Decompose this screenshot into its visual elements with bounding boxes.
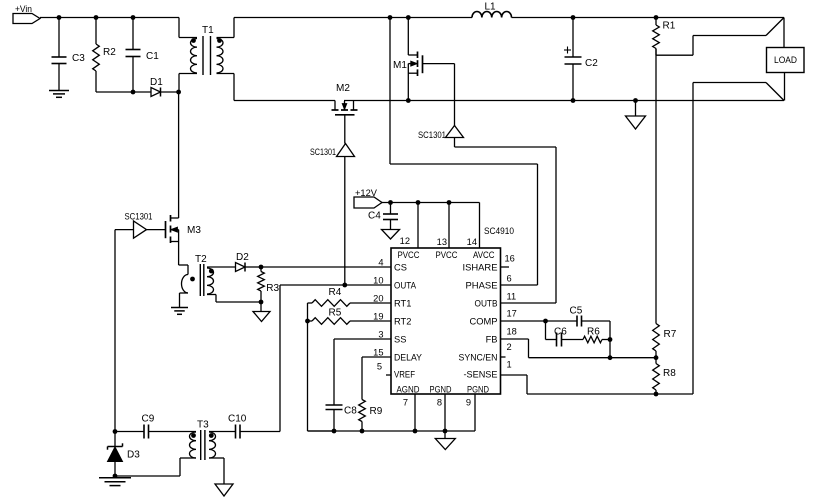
resistor R2: [93, 18, 117, 93]
wire pin 12 stub: [417, 203, 419, 249]
transformer T1 label: [202, 25, 214, 36]
svg-text:LOAD: LOAD: [774, 55, 797, 66]
svg-text:T1: T1: [202, 25, 214, 36]
svg-text:DELAY: DELAY: [394, 353, 422, 363]
T1 secondary phase dot: [217, 38, 222, 43]
wire switch-node rail (T1 to L1): [234, 17, 472, 19]
pin 3 label: [378, 330, 383, 340]
transistor M3: [166, 215, 202, 265]
wire PHASE sense (switch node to pin 6): [390, 18, 538, 286]
svg-text:4: 4: [378, 258, 383, 268]
wire T1 primary bottom lead: [179, 74, 197, 93]
wire M3 driver output to gate: [147, 229, 166, 231]
junction M1 drain: [406, 15, 411, 20]
svg-text:C6: C6: [554, 327, 567, 338]
svg-text:+12V: +12V: [355, 188, 378, 198]
pin 11 label: [507, 292, 517, 302]
junction D2 cathode / CS: [259, 265, 264, 270]
svg-text:PVCC: PVCC: [436, 250, 458, 260]
transformer T1 secondary winding: [217, 39, 224, 73]
wire pin 9 stub: [474, 394, 476, 431]
svg-text:6: 6: [507, 274, 512, 284]
wire output return rail: [344, 100, 784, 102]
op-amp U1 controller IC SC4910 body: [391, 248, 501, 395]
wire R3 bottom to ground: [260, 302, 262, 312]
wire pin 8 stub: [444, 394, 446, 431]
pin 9 label: [466, 398, 471, 408]
transistor M2 (sync FET, horizontal): [332, 83, 358, 115]
svg-text:C9: C9: [142, 414, 155, 425]
svg-text:D1: D1: [150, 77, 163, 88]
junction COMP node: [543, 319, 548, 324]
svg-text:T2: T2: [195, 254, 207, 265]
pin 7 label: [403, 398, 408, 408]
resistor R9: [359, 400, 383, 432]
wire -SENSE riser to bottom flag: [692, 83, 694, 395]
resistor R7: [653, 324, 677, 358]
wire +12V rail: [382, 202, 480, 204]
svg-text:PGND: PGND: [467, 385, 489, 395]
pin 5 label: [377, 362, 382, 372]
junction R7/R8 feedback node: [654, 355, 659, 360]
svg-text:2: 2: [507, 342, 512, 352]
T2 secondary phase dot: [209, 269, 214, 274]
pin 19 label: [373, 312, 383, 322]
wire M2 gate to driver: [344, 115, 346, 144]
ground (earth) below T2: [171, 308, 188, 315]
wire R2 bottom to D1 anode: [96, 91, 151, 93]
svg-text:C3: C3: [72, 53, 85, 64]
wire CS line (D2/R3 node to pin 4): [261, 266, 391, 268]
capacitor C2: [564, 18, 598, 101]
transformer T3 core: [201, 430, 205, 460]
wire ISHARE stub (pin 16): [501, 266, 510, 268]
svg-text:SC1301: SC1301: [310, 147, 336, 157]
svg-text:AGND: AGND: [397, 385, 420, 395]
resistor R8: [653, 358, 677, 394]
resistor R1: [653, 18, 676, 56]
wire M1 driver input from OUTB: [455, 138, 557, 148]
junction C8 bottom: [332, 429, 337, 434]
op-amp U3 gate driver SC1301 (M1): [418, 126, 464, 141]
wire -SENSE (pin 1) routing: [501, 375, 694, 394]
junction R1 top: [654, 15, 659, 20]
ground (earth) below D3: [99, 476, 131, 486]
wire SS (pin 3): [334, 338, 391, 340]
wire D3 node to C9: [115, 431, 144, 433]
T3 secondary phase dot: [209, 433, 214, 438]
wire T2 secondary bottom to R3: [207, 295, 261, 303]
svg-text:OUTB: OUTB: [475, 299, 498, 309]
T1 primary phase dot: [191, 38, 196, 43]
pin 14 label: [467, 237, 477, 247]
wire T1 primary top lead: [179, 18, 197, 38]
transformer T3 label: [197, 420, 209, 431]
svg-text:AVCC: AVCC: [473, 250, 495, 260]
transformer T2 label: [195, 254, 207, 265]
junction R3 bottom: [259, 300, 264, 305]
wire pin 14 stub: [479, 203, 481, 249]
capacitor C1: [126, 18, 160, 93]
wire T1 secondary bottom rail to M2: [234, 100, 335, 102]
junction C3 top: [57, 15, 62, 20]
junction pin 7 ground: [413, 429, 418, 434]
svg-text:R3: R3: [266, 283, 279, 294]
capacitor C3: [52, 18, 86, 91]
svg-text:T3: T3: [197, 420, 209, 431]
diode D2: [236, 252, 262, 272]
ground below PGND rail: [435, 431, 455, 450]
junction R8 bottom / -SENSE: [654, 392, 659, 397]
svg-text:PGND: PGND: [430, 385, 452, 395]
resistor R6: [583, 327, 602, 343]
pin 18 label: [507, 327, 517, 337]
inductor L1: [472, 2, 512, 18]
svg-text:R2: R2: [103, 47, 116, 58]
svg-text:M1: M1: [393, 60, 407, 71]
pin 6 label: [507, 274, 512, 284]
wire M1 gate loop: [423, 64, 455, 126]
svg-text:ISHARE: ISHARE: [463, 263, 498, 273]
pin 17 label: [507, 309, 517, 319]
wire COMP to C6: [546, 321, 557, 340]
ground below T3 secondary: [215, 484, 233, 496]
wire M3 source to T2 primary: [179, 265, 188, 275]
svg-text:+Vin: +Vin: [15, 4, 32, 14]
svg-text:FB: FB: [486, 335, 498, 345]
wire T3 primary bottom return: [115, 458, 196, 476]
IC part number label SC4910: [484, 226, 514, 236]
wire T1 secondary bottom lead: [217, 74, 235, 101]
svg-text:7: 7: [403, 398, 408, 408]
pin 10 label: [373, 276, 383, 286]
svg-text:D2: D2: [236, 252, 249, 263]
junction output ground: [633, 98, 638, 103]
junction R2 top: [94, 15, 99, 20]
transformer T2 core: [200, 264, 204, 296]
junction C2 top: [571, 15, 576, 20]
capacitor C8: [326, 339, 358, 431]
junction R4/R5 common: [305, 319, 310, 324]
pin 4 label: [378, 258, 383, 268]
svg-text:C5: C5: [570, 306, 583, 317]
wire R1/R7 sense divider riser: [655, 49, 657, 324]
junction D3 anode / T3 return: [113, 474, 118, 479]
wire R4/R5 common to AGND rail: [308, 303, 335, 431]
wire VREF stub (pin 5): [386, 374, 391, 376]
junction pin 12 supply: [416, 200, 421, 205]
transformer T3 primary winding: [189, 432, 196, 458]
wire R6 to C5 right end: [602, 321, 610, 340]
svg-text:CS: CS: [394, 263, 407, 273]
wire M3 driver input riser: [115, 230, 134, 432]
svg-text:20: 20: [373, 294, 383, 304]
transformer T1 core: [203, 36, 211, 75]
wire rail drop to LOAD: [783, 18, 785, 48]
pin 2 label: [507, 342, 512, 352]
svg-text:SYNC/EN: SYNC/EN: [459, 353, 498, 363]
wire C9 to T3 primary: [149, 431, 197, 433]
resistor R5: [308, 308, 392, 325]
svg-text:14: 14: [467, 237, 477, 247]
svg-text:SC1301: SC1301: [418, 130, 446, 140]
transformer T2 secondary winding: [207, 268, 214, 294]
wire T3 secondary top to C10: [209, 431, 236, 433]
svg-text:M3: M3: [187, 225, 201, 236]
svg-text:19: 19: [373, 312, 383, 322]
pin 12 label: [400, 236, 410, 246]
svg-text:SS: SS: [394, 335, 406, 345]
svg-text:8: 8: [437, 398, 442, 408]
junction C4 top: [388, 200, 393, 205]
junction M1 source: [406, 98, 411, 103]
T2 primary phase dot: [190, 277, 195, 282]
svg-text:SC1301: SC1301: [125, 212, 153, 222]
svg-text:15: 15: [373, 348, 383, 358]
junction D1 cathode / T1 primary bottom: [176, 90, 181, 95]
capacitor C9: [142, 414, 155, 439]
pin 15 label: [373, 348, 383, 358]
junction PHASE sense riser: [388, 15, 393, 20]
wire AGND/PGND ground rail: [308, 430, 476, 432]
capacitor C5: [570, 306, 583, 327]
op-amp U4 gate driver SC1301 (M3): [125, 212, 153, 239]
transformer T1 primary winding: [191, 39, 198, 73]
svg-text:17: 17: [507, 309, 517, 319]
node +Vin input tag: [13, 4, 40, 24]
junction C5/R6 node: [608, 337, 613, 342]
svg-text:COMP: COMP: [470, 317, 498, 327]
svg-text:11: 11: [507, 292, 517, 302]
wire T2 secondary top to D2: [207, 266, 236, 268]
diode D3 (zener): [108, 432, 141, 477]
svg-text:13: 13: [437, 237, 447, 247]
svg-text:RT2: RT2: [394, 317, 411, 327]
svg-text:-SENSE: -SENSE: [464, 370, 498, 380]
wire top input rail (+Vin to T1): [40, 17, 179, 19]
svg-text:3: 3: [378, 330, 383, 340]
svg-text:VREF: VREF: [394, 370, 415, 380]
ground below C4: [382, 230, 400, 240]
wire bottom flag inner line: [693, 82, 766, 84]
pin 20 label: [373, 294, 383, 304]
wire T1 primary bottom to M3 drain: [178, 92, 180, 218]
svg-text:10: 10: [373, 276, 383, 286]
wire top sense flag to LOAD: [693, 18, 784, 36]
transformer T2 primary winding: [182, 275, 188, 294]
ground below output return rail: [626, 101, 646, 130]
svg-text:PHASE: PHASE: [466, 281, 498, 291]
T3 primary phase dot: [191, 433, 196, 438]
svg-text:R9: R9: [370, 406, 383, 417]
resistor R4: [308, 287, 392, 306]
transistor M1 (forward FET, vertical): [393, 18, 423, 101]
junction C2 bottom: [571, 98, 576, 103]
svg-text:R6: R6: [587, 327, 600, 338]
pin 13 label: [437, 237, 447, 247]
wire COMP (pin 17): [501, 320, 611, 322]
load block LOAD: [767, 48, 805, 73]
wire C6 to R6: [562, 339, 584, 341]
svg-text:OUTA: OUTA: [394, 281, 417, 291]
svg-text:R1: R1: [663, 21, 676, 32]
junction OUTA / M2-driver riser: [342, 283, 347, 288]
transformer T3 secondary winding: [209, 432, 216, 458]
wire T3 secondary bottom to ground: [209, 458, 224, 484]
junction C1 top: [131, 15, 136, 20]
svg-text:12: 12: [400, 236, 410, 246]
svg-text:1: 1: [507, 360, 512, 370]
junction comp network on FB line: [608, 355, 613, 360]
svg-text:L1: L1: [485, 2, 497, 13]
wire C10 to OUTA riser: [240, 431, 280, 433]
wire bottom flag diagonal: [766, 83, 784, 101]
svg-text:R8: R8: [663, 368, 676, 379]
wire OUTA (pin 10): [280, 284, 391, 286]
ground (earth) below C3: [49, 91, 69, 98]
svg-text:C8: C8: [344, 406, 357, 417]
wire LOAD bottom to return rail: [784, 73, 786, 101]
wire OUTA to C10 riser: [279, 285, 281, 432]
svg-text:RT1: RT1: [394, 299, 411, 309]
wire M2 driver input from OUTA: [344, 157, 346, 286]
wire T1 secondary top lead: [217, 18, 235, 38]
resistor R3: [258, 267, 280, 302]
svg-text:C2: C2: [585, 58, 598, 69]
svg-text:9: 9: [466, 398, 471, 408]
junction C1 bottom: [131, 90, 136, 95]
junction pin 13 supply: [447, 200, 452, 205]
svg-text:PVCC: PVCC: [398, 250, 420, 260]
svg-text:C1: C1: [146, 51, 159, 62]
ground below R3: [253, 312, 270, 322]
svg-text:R4: R4: [329, 287, 342, 298]
wire pin 7 stub: [414, 394, 416, 431]
svg-text:C4: C4: [368, 211, 381, 222]
svg-text:16: 16: [505, 254, 515, 264]
pin 16 label: [505, 254, 515, 264]
svg-text:D3: D3: [127, 450, 140, 461]
wire SYNC/EN stub (pin 2): [501, 356, 506, 358]
capacitor C6: [554, 327, 567, 347]
junction R9 bottom: [360, 429, 365, 434]
svg-text:M2: M2: [336, 83, 350, 94]
svg-text:R5: R5: [329, 308, 342, 319]
wire OUTB to M1 driver: [501, 147, 557, 303]
capacitor C4: [368, 203, 398, 230]
pin 8 label: [437, 398, 442, 408]
svg-text:SC4910: SC4910: [484, 226, 514, 236]
svg-text:R7: R7: [664, 329, 677, 340]
node +12V supply tag: [354, 188, 382, 208]
capacitor C10: [228, 414, 247, 439]
pin 1 label: [507, 360, 512, 370]
op-amp U2 gate driver SC1301 (M2): [310, 144, 355, 158]
wire compensation to FB node: [609, 340, 611, 358]
diode D1: [150, 77, 179, 97]
svg-text:C10: C10: [228, 414, 247, 425]
svg-text:5: 5: [377, 362, 382, 372]
wire L1 to output corner: [512, 17, 785, 19]
wire R1 bottom to sense flag: [656, 36, 693, 56]
wire FB (pin 18) routing: [501, 339, 657, 358]
svg-text:18: 18: [507, 327, 517, 337]
wire pin 13 stub: [448, 203, 450, 249]
junction pin 8 ground: [443, 429, 448, 434]
wire DELAY (pin 15) to R9: [362, 357, 391, 400]
junction D3 / C9 node: [113, 429, 118, 434]
wire T2 primary bottom to ground: [180, 293, 189, 308]
